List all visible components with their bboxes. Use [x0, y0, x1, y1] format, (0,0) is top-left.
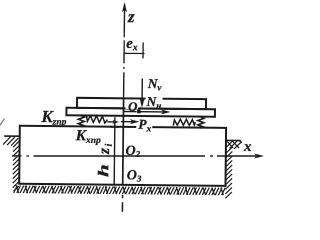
svg-text:h: h [96, 164, 112, 177]
z axis dash-dot below foundation [122, 195, 124, 198]
ground wall hatch right [225, 147, 232, 199]
spring K_x right (horizontal zigzag) [173, 119, 195, 126]
force N_v arrow (down) [141, 79, 143, 102]
z axis dash-dot between e_x and body [123, 53, 125, 63]
svg-text:O2: O2 [125, 144, 140, 159]
machine plate upper [77, 98, 206, 109]
tick at foundation top [110, 126, 119, 128]
spring K_z left (vertical zigzag) [78, 115, 84, 127]
x axis arrowhead [254, 154, 264, 159]
dimension line z_i / h vertical [113, 117, 116, 184]
label knockout patches [125, 100, 138, 109]
svg-text:z: z [127, 7, 135, 26]
ground hatch bottom band [14, 185, 226, 195]
force N_н arrow (right) [140, 111, 163, 113]
svg-text:x: x [243, 139, 252, 155]
x axis dash-dot centerline [12, 155, 256, 157]
z axis solid through body [122, 97, 125, 184]
ground wall hatch left [13, 141, 20, 191]
spring K_x left (horizontal zigzag) [86, 115, 107, 123]
svg-text:Kzпр: Kzпр [40, 107, 67, 128]
machine plate lower [66, 108, 215, 117]
node O1 dot [137, 110, 141, 114]
scan artifact left edge [0, 119, 4, 126]
z axis upper solid segment with arrow [123, 4, 125, 33]
force P_x arrow (right) [121, 121, 133, 123]
ground hatch right surface [227, 141, 242, 149]
ground surface left [4, 135, 19, 137]
svg-text:Nv: Nv [147, 76, 163, 92]
z axis dash-dot upper [123, 33, 125, 40]
ground surface right [226, 140, 242, 143]
wire O1 to axis [123, 111, 136, 113]
spring K_z right (vertical zigzag) [198, 117, 204, 129]
svg-text:O1: O1 [128, 99, 142, 115]
spring K_x left attach arrow [107, 121, 114, 123]
svg-text:O3: O3 [127, 168, 142, 183]
ground hatch left surface [3, 137, 18, 146]
svg-text:ex: ex [126, 36, 138, 54]
dimension e_x [124, 40, 145, 58]
foundation block [19, 126, 226, 186]
svg-text:Kxпр: Kxпр [75, 127, 102, 146]
